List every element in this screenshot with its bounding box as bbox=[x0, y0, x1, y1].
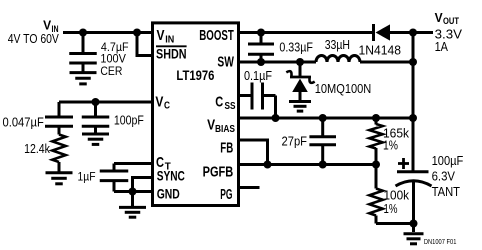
svg-text:0.33µF: 0.33µF bbox=[279, 39, 313, 54]
svg-text:BIAS: BIAS bbox=[215, 124, 235, 135]
svg-text:FB: FB bbox=[220, 140, 233, 156]
svg-text:27pF: 27pF bbox=[282, 134, 308, 149]
svg-text:V: V bbox=[207, 116, 215, 133]
svg-text:C: C bbox=[164, 101, 170, 112]
svg-text:100pF: 100pF bbox=[114, 113, 144, 128]
svg-text:SW: SW bbox=[217, 55, 234, 71]
svg-text:SS: SS bbox=[225, 101, 236, 112]
svg-text:1A: 1A bbox=[435, 39, 449, 54]
svg-text:1N4148: 1N4148 bbox=[359, 43, 402, 58]
svg-text:4V TO 60V: 4V TO 60V bbox=[8, 31, 59, 46]
svg-text:V: V bbox=[155, 93, 163, 110]
svg-text:PG: PG bbox=[220, 187, 232, 203]
svg-text:1%: 1% bbox=[383, 138, 398, 153]
svg-text:10MQ100N: 10MQ100N bbox=[315, 81, 372, 96]
svg-text:LT1976: LT1976 bbox=[176, 67, 214, 83]
svg-text:BOOST: BOOST bbox=[199, 28, 234, 44]
svg-text:OUT: OUT bbox=[443, 16, 459, 26]
svg-text:DN1007 F01: DN1007 F01 bbox=[424, 239, 457, 246]
svg-text:100µF: 100µF bbox=[432, 153, 464, 168]
svg-text:C: C bbox=[215, 94, 223, 111]
svg-text:CER: CER bbox=[100, 64, 122, 78]
svg-text:12.4k: 12.4k bbox=[24, 141, 50, 156]
svg-text:0.1µF: 0.1µF bbox=[244, 68, 272, 83]
svg-text:IN: IN bbox=[165, 35, 174, 46]
svg-text:0.047µF: 0.047µF bbox=[3, 114, 44, 129]
svg-text:1µF: 1µF bbox=[78, 170, 96, 184]
svg-text:GND: GND bbox=[157, 187, 180, 202]
svg-text:SHDN: SHDN bbox=[156, 47, 187, 62]
svg-text:1%: 1% bbox=[384, 201, 398, 216]
svg-text:33µH: 33µH bbox=[325, 37, 350, 52]
svg-text:PGFB: PGFB bbox=[203, 165, 234, 181]
svg-text:SYNC: SYNC bbox=[157, 168, 185, 183]
svg-text:TANT: TANT bbox=[432, 184, 460, 199]
svg-text:V: V bbox=[157, 27, 165, 44]
svg-text:V: V bbox=[435, 10, 443, 25]
svg-text:6.3V: 6.3V bbox=[432, 168, 456, 183]
